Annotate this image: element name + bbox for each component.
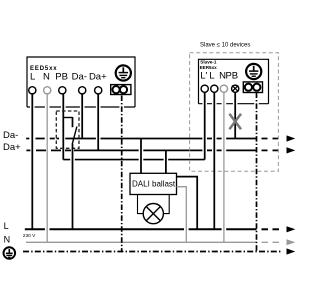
- terminal Da+: [95, 87, 102, 94]
- wire N slave down: [223, 92, 225, 242]
- svg-text:Da-: Da-: [72, 72, 87, 83]
- wire L bus arrow: [287, 226, 296, 232]
- svg-text:EER5xx: EER5xx: [200, 65, 218, 70]
- svg-text:DALI ballast: DALI ballast: [132, 180, 176, 189]
- wire switch to L bus: [72, 144, 74, 230]
- svg-text:L: L: [209, 71, 214, 82]
- terminal block slave: [243, 82, 262, 93]
- no-connect X mark: [229, 114, 241, 129]
- wire crossing casings: [45, 136, 226, 231]
- wire PE slave dash-dot: [256, 93, 258, 252]
- svg-text:Da+: Da+: [89, 72, 107, 83]
- wire Da- bus: [26, 138, 278, 140]
- wire PB slave down: [234, 92, 236, 138]
- wire PE master dash-dot: [121, 96, 123, 252]
- terminal L: [29, 87, 36, 94]
- svg-text:Slave ≤ 10 devices: Slave ≤ 10 devices: [200, 42, 250, 48]
- wire ballast Da- drop: [140, 139, 142, 174]
- terminal N slave: [220, 85, 227, 92]
- wire L bus 230V: [25, 228, 279, 230]
- wire Da- arrow: [287, 135, 296, 141]
- earth symbol slave: [246, 64, 261, 79]
- wire lamp left: [138, 195, 144, 214]
- push button S: [56, 111, 79, 148]
- svg-text:N: N: [43, 72, 50, 83]
- wire ballast Da+ drop: [165, 150, 167, 173]
- wire ballast L to bus: [177, 177, 198, 230]
- lamp E1: [143, 204, 163, 224]
- earth symbol master: [116, 65, 131, 80]
- svg-text:230 V: 230 V: [23, 233, 36, 239]
- wire L slave down: [213, 92, 215, 229]
- terminal N: [44, 87, 51, 94]
- earth symbol bottom left: [4, 247, 16, 259]
- wire PE bus arrow: [287, 248, 296, 254]
- terminal block master: [111, 85, 131, 95]
- terminal Da-: [79, 87, 86, 94]
- wire switched-L link PB to L': [63, 159, 204, 161]
- svg-text:PB: PB: [225, 71, 238, 82]
- wire PE bus earth: [23, 251, 282, 253]
- terminal L' slave: [201, 85, 208, 92]
- svg-text:N: N: [4, 234, 11, 244]
- slave group enclosure dashed: [190, 53, 279, 172]
- terminal PB slave crossed: [232, 85, 239, 92]
- svg-text:L': L': [200, 71, 207, 82]
- svg-text:L: L: [30, 72, 35, 83]
- svg-text:Slave-1: Slave-1: [200, 59, 217, 64]
- wire lamp right: [163, 195, 169, 214]
- device EER5xx slave box: [199, 59, 269, 103]
- pin labels L N PB Da- Da+: [30, 72, 107, 83]
- terminal L slave: [211, 85, 218, 92]
- svg-text:PB: PB: [55, 72, 68, 83]
- wire N from EED5xx: [46, 94, 48, 243]
- terminal PB: [59, 87, 66, 94]
- pin labels L' L N PB: [200, 71, 238, 82]
- svg-text:Da-: Da-: [3, 130, 18, 141]
- wire L from EED5xx: [31, 94, 33, 230]
- device EED5xx master box: [27, 57, 135, 107]
- wire PB from EED5xx: [62, 94, 64, 160]
- wire N bus arrow: [287, 239, 296, 245]
- wire Da+ arrow: [287, 147, 296, 153]
- wire L' slave down: [204, 92, 206, 160]
- device DALI ballast: [130, 173, 177, 194]
- wire N bus 230V: [26, 241, 279, 243]
- wire ballast N to bus: [177, 187, 187, 243]
- wire Da+ from EED5xx: [97, 94, 99, 151]
- svg-text:L: L: [4, 221, 9, 231]
- svg-text:Da+: Da+: [3, 142, 21, 153]
- wire Da- from EED5xx: [81, 94, 83, 139]
- wire Da+ bus: [26, 149, 278, 151]
